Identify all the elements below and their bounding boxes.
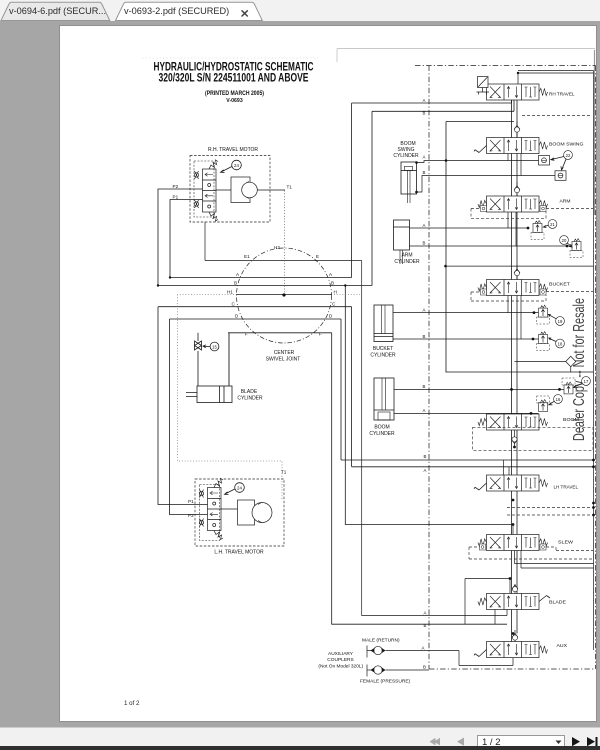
blade shutoff valve xyxy=(195,333,202,386)
svg-text:R.H. TRAVEL MOTOR: R.H. TRAVEL MOTOR xyxy=(208,147,258,153)
svg-text:D: D xyxy=(329,314,333,319)
valve RH TRAVEL xyxy=(477,77,575,101)
L.H. travel motor inner dashed box xyxy=(200,485,220,541)
check valve above boom swing xyxy=(514,121,520,138)
wire E1-E case drain xyxy=(205,222,507,616)
male coupler xyxy=(367,646,386,658)
circled 20 xyxy=(560,236,572,247)
svg-text:BLADE: BLADE xyxy=(549,600,566,605)
svg-text:H2: H2 xyxy=(274,245,280,250)
svg-text:B: B xyxy=(423,384,426,389)
wire boom A xyxy=(394,412,539,414)
relief valve arm A xyxy=(531,221,544,240)
svg-text:AUX: AUX xyxy=(557,643,568,648)
boom swing cylinder xyxy=(401,162,417,203)
svg-text:BOOM: BOOM xyxy=(563,417,579,422)
female coupler xyxy=(367,665,386,677)
wire H1 dotted drain to LH motor xyxy=(178,295,283,501)
dashed pilot lines bucket xyxy=(471,292,593,302)
check block 1 boom swing xyxy=(539,156,550,166)
svg-text:T1: T1 xyxy=(287,185,293,190)
R.H. motor hydraulic motor xyxy=(231,177,257,203)
anticavitation diamond xyxy=(515,356,576,372)
L.H. motor hydraulic motor xyxy=(221,500,272,525)
svg-text:320/320L S/N 224511001 AND ABO: 320/320L S/N 224511001 AND ABOVE xyxy=(159,73,309,85)
L.H. travel motor spool block xyxy=(208,488,222,531)
valve BOOM xyxy=(478,414,579,430)
dashed box around boom section xyxy=(473,427,594,450)
wire D line swivel xyxy=(170,319,594,515)
R.H. motor left check valves xyxy=(194,171,198,208)
wire P1 run xyxy=(170,200,203,278)
return bus top xyxy=(518,71,594,651)
svg-text:CYLINDER: CYLINDER xyxy=(370,353,396,359)
svg-text:(Not On Model 320L): (Not On Model 320L) xyxy=(318,664,363,670)
circled 17 xyxy=(573,377,590,388)
dashed section lines below LH travel xyxy=(507,508,592,516)
svg-text:C: C xyxy=(232,302,236,307)
relief valve boom A xyxy=(537,396,550,412)
wire boom B xyxy=(394,388,564,390)
R.H. travel motor spool block xyxy=(203,169,217,212)
wires slew returns xyxy=(515,551,594,569)
node boom swing ports xyxy=(415,161,418,164)
L.H. motor left check valves xyxy=(199,490,203,527)
valve BLADE xyxy=(478,594,566,610)
svg-text:A: A xyxy=(423,155,426,160)
arm cylinder xyxy=(394,220,410,264)
L.H. motor bottom spring xyxy=(214,531,223,540)
svg-text:BOOM SWING: BOOM SWING xyxy=(549,142,584,147)
wire arm valve B drop xyxy=(515,212,517,246)
check valve above aux xyxy=(512,630,518,642)
circled 24 (RH) xyxy=(221,160,242,172)
bucket cylinder label xyxy=(370,346,396,359)
wire boom swing B xyxy=(417,176,556,193)
arm cylinder label xyxy=(394,253,420,266)
svg-text:ARM: ARM xyxy=(401,253,412,259)
svg-text:BLADE: BLADE xyxy=(241,389,258,395)
dashed pilot lines slew xyxy=(469,547,593,559)
svg-text:24: 24 xyxy=(234,163,239,168)
circled 19 xyxy=(548,314,564,325)
svg-text:CYLINDER: CYLINDER xyxy=(394,259,420,265)
last-page button xyxy=(587,737,598,746)
node arm A junction xyxy=(527,227,530,230)
svg-text:15: 15 xyxy=(212,345,217,350)
svg-text:B: B xyxy=(423,241,426,246)
wire BS valve A drop xyxy=(507,154,509,161)
svg-text:P2: P2 xyxy=(188,513,194,518)
check valve above blade xyxy=(512,584,518,594)
svg-text:A: A xyxy=(329,272,333,277)
valve BUCKET xyxy=(478,280,570,296)
tab bar xyxy=(0,0,600,21)
svg-text:24: 24 xyxy=(237,486,242,491)
R.H. travel motor inner dashed box xyxy=(194,161,214,217)
node P junctions xyxy=(157,284,159,286)
svg-text:CYLINDER: CYLINDER xyxy=(237,396,263,402)
check valve below boom xyxy=(512,430,518,447)
R.H. motor top spring xyxy=(209,160,218,169)
faint horizontal rule xyxy=(337,49,595,63)
return line mid xyxy=(446,122,594,373)
node below LH travel xyxy=(512,499,515,502)
svg-text:H: H xyxy=(334,290,337,295)
wire LH valve A/B drops xyxy=(504,460,510,475)
R.H. motor bottom spring xyxy=(209,212,218,221)
relief valve arm B xyxy=(570,239,583,258)
circled 24 (LH) xyxy=(225,483,245,495)
wire B line swivel xyxy=(158,100,514,525)
svg-text:17: 17 xyxy=(584,379,589,384)
active tab v-0693-2.pdf xyxy=(116,2,263,20)
wire arm A xyxy=(410,227,529,229)
check valve above bucket xyxy=(514,265,520,280)
wire arm B xyxy=(410,245,573,247)
svg-text:B: B xyxy=(423,334,426,339)
wire H line through center xyxy=(236,294,332,296)
svg-text:L.H. TRAVEL MOTOR: L.H. TRAVEL MOTOR xyxy=(214,550,264,556)
valve BOOM SWING xyxy=(474,138,584,154)
svg-text:F: F xyxy=(245,332,248,337)
svg-text:20: 20 xyxy=(562,238,567,243)
valve LH TRAVEL xyxy=(474,475,578,491)
wire A line swivel xyxy=(170,100,512,278)
gray page-edge vertical xyxy=(594,50,596,215)
relief valve bucket A xyxy=(537,305,550,324)
circled 16 xyxy=(549,395,563,405)
L.H. motor top spring xyxy=(214,479,223,488)
nodes right bus xyxy=(592,459,595,462)
svg-text:RH TRAVEL: RH TRAVEL xyxy=(549,92,575,97)
svg-text:1 of 2: 1 of 2 xyxy=(124,700,140,707)
blade cylinder xyxy=(186,333,232,403)
next-page button xyxy=(572,737,580,746)
valve AUX xyxy=(474,642,567,658)
check valve above arm xyxy=(514,182,520,196)
boom swing cylinder label xyxy=(393,141,419,159)
wire BS valve B drop xyxy=(520,154,522,176)
nodes boom B junctions xyxy=(510,388,513,391)
node aux feed xyxy=(512,632,515,635)
wire aux B female xyxy=(386,669,430,671)
circled 22 xyxy=(551,151,573,170)
svg-text:SWIVEL JOINT: SWIVEL JOINT xyxy=(266,357,301,363)
svg-text:18: 18 xyxy=(558,342,563,347)
auxiliary couplers label xyxy=(318,651,363,670)
svg-text:AUXILIARY: AUXILIARY xyxy=(328,651,354,657)
svg-text:v-0694-6.pdf (SECUR...: v-0694-6.pdf (SECUR... xyxy=(9,6,106,16)
circled 15 xyxy=(203,342,219,351)
title text xyxy=(154,62,314,104)
svg-text:BUCKET: BUCKET xyxy=(373,346,393,352)
svg-text:B: B xyxy=(424,623,427,628)
svg-text:A: A xyxy=(424,611,427,616)
faint dotted row xyxy=(142,57,318,59)
wire boom swing A xyxy=(417,161,539,163)
svg-text:A: A xyxy=(423,98,426,103)
node arm B junction xyxy=(566,245,569,248)
boom cylinder label xyxy=(369,425,395,438)
svg-text:ARM: ARM xyxy=(560,199,571,204)
svg-text:COUPLERS: COUPLERS xyxy=(327,657,353,663)
prev-page button (disabled) xyxy=(457,738,464,746)
node boom check xyxy=(513,446,516,449)
first-page button (disabled) xyxy=(430,738,441,746)
wire slew feed drop xyxy=(512,525,514,535)
dashed section line below RH travel xyxy=(522,115,592,117)
svg-text:A: A xyxy=(422,646,425,651)
svg-text:BOOM: BOOM xyxy=(374,425,389,431)
wire blade valve drops xyxy=(495,610,507,625)
svg-text:FEMALE (PRESSURE): FEMALE (PRESSURE) xyxy=(360,679,411,685)
svg-text:v-0693-2.pdf (SECURED): v-0693-2.pdf (SECURED) xyxy=(124,6,229,16)
circled 21 xyxy=(543,220,556,229)
svg-text:A: A xyxy=(423,308,426,313)
svg-text:BUCKET: BUCKET xyxy=(549,282,570,287)
wire bucket A xyxy=(393,312,539,314)
svg-text:21: 21 xyxy=(550,222,555,227)
node boom A junction xyxy=(530,412,533,415)
svg-text:CENTER: CENTER xyxy=(274,350,295,356)
machine boundary dash-dot frame xyxy=(415,66,596,670)
node slew feed xyxy=(512,523,515,526)
svg-text:C: C xyxy=(332,302,336,307)
svg-text:F: F xyxy=(319,332,322,337)
svg-text:A: A xyxy=(423,223,426,228)
svg-text:B: B xyxy=(424,454,427,459)
svg-text:A: A xyxy=(424,468,427,473)
R.H. travel motor dashed enclosure xyxy=(190,156,270,223)
svg-text:LH TRAVEL: LH TRAVEL xyxy=(554,485,579,490)
svg-text:B: B xyxy=(234,281,237,286)
svg-text:V-0693: V-0693 xyxy=(226,98,243,104)
wire T1 dotted drop to center xyxy=(284,191,286,295)
boundary port letters xyxy=(422,98,427,670)
svg-text:P1: P1 xyxy=(188,499,194,504)
svg-text:22: 22 xyxy=(566,153,571,158)
pressure gallery wires xyxy=(512,100,518,642)
wire H dotted right xyxy=(334,294,360,296)
page combo box 1 / 2 xyxy=(478,736,565,749)
dashed pilot lines arm xyxy=(471,209,593,219)
svg-text:19: 19 xyxy=(558,319,563,324)
blade cylinder label xyxy=(237,389,263,402)
svg-text:MALE (RETURN): MALE (RETURN) xyxy=(362,638,400,644)
node bucket A junction xyxy=(533,311,536,314)
svg-text:T1: T1 xyxy=(281,470,287,475)
svg-text:CYLINDER: CYLINDER xyxy=(393,153,419,159)
swivel port letters xyxy=(227,245,337,337)
svg-text:H1: H1 xyxy=(227,290,233,295)
svg-text:A: A xyxy=(423,408,426,413)
wire bucket B xyxy=(393,338,539,340)
relief valve boom B xyxy=(562,378,575,394)
wire bucket valve B drop xyxy=(520,296,522,340)
valve ARM xyxy=(478,196,571,212)
wire C line swivel xyxy=(158,307,594,505)
L.H. travel motor dashed enclosure xyxy=(195,479,284,546)
relief valve bucket B xyxy=(537,332,550,351)
wire motor to T1 xyxy=(216,189,285,191)
wire P2 run xyxy=(158,189,203,286)
boom cylinder xyxy=(374,378,394,420)
svg-text:B: B xyxy=(423,170,426,175)
svg-text:SLEW: SLEW xyxy=(558,540,574,545)
check block 2 boom swing xyxy=(555,171,566,181)
status bar xyxy=(0,727,600,746)
coupler labels xyxy=(360,638,411,685)
svg-text:(PRINTED MARCH 2005): (PRINTED MARCH 2005) xyxy=(205,91,264,97)
wire aux A feed xyxy=(386,651,514,666)
wire bucket valve A drop xyxy=(507,296,509,313)
svg-text:B: B xyxy=(423,111,426,116)
wire arm valve A drop xyxy=(507,212,509,228)
wire F line swivel xyxy=(228,333,507,624)
center swivel joint circle xyxy=(237,248,332,343)
node center dot xyxy=(282,293,285,296)
bucket cylinder xyxy=(374,305,393,342)
svg-text:A: A xyxy=(236,272,240,277)
node blade feed xyxy=(509,577,512,580)
center swivel joint label xyxy=(266,350,301,363)
valve SLEW xyxy=(478,535,574,551)
svg-text:P2: P2 xyxy=(173,184,179,189)
svg-text:E: E xyxy=(316,254,319,259)
svg-text:P1: P1 xyxy=(173,195,179,200)
svg-text:E1: E1 xyxy=(244,254,250,259)
blade feed loop xyxy=(465,579,510,625)
svg-text:B: B xyxy=(331,281,334,286)
node bucket B junction xyxy=(532,338,535,341)
svg-text:CYLINDER: CYLINDER xyxy=(369,431,395,437)
circled 18 xyxy=(549,338,565,348)
svg-text:B: B xyxy=(423,665,426,670)
svg-text:16: 16 xyxy=(556,397,561,402)
inactive tab v-0694-6.pdf xyxy=(1,2,110,20)
svg-text:D: D xyxy=(235,314,239,319)
